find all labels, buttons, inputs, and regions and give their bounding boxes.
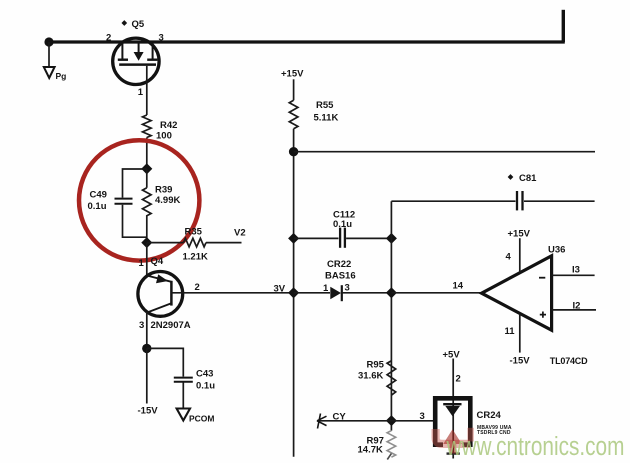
resistor R97 faded [387, 431, 396, 460]
svg-text:2N2907A: 2N2907A [151, 320, 191, 331]
svg-text:V2: V2 [234, 228, 246, 239]
wire: node to op-amp [391, 292, 481, 294]
green watermark text [446, 432, 625, 461]
label -15V op-amp [510, 356, 531, 367]
label V2 [234, 228, 246, 239]
red highlight circle [79, 140, 199, 260]
wire: C112 to mid node [346, 237, 391, 239]
pin 3 and part number label Q4 [139, 320, 191, 331]
node: dot at C43 tap [142, 344, 151, 353]
capacitor C81 plates [517, 191, 523, 210]
svg-text:C81: C81 [519, 173, 537, 184]
label C81 with dot [508, 173, 537, 184]
svg-text:3: 3 [345, 283, 350, 294]
svg-text:2: 2 [106, 33, 111, 44]
svg-text:3V: 3V [274, 284, 286, 295]
svg-text:4.99K: 4.99K [155, 195, 180, 206]
wire: C81 right [524, 200, 595, 202]
wire: to -15V [146, 348, 148, 403]
svg-text:R35: R35 [185, 227, 203, 238]
svg-text:31.6K: 31.6K [358, 371, 383, 382]
op-amp U36 triangle [482, 256, 552, 330]
wire: Q4 collector down [146, 312, 148, 349]
svg-text:1: 1 [323, 283, 329, 294]
svg-text:2: 2 [456, 374, 461, 385]
label +5V [443, 350, 461, 361]
wire: Q5 pin1 down to R42 [146, 66, 148, 115]
pin 14 label [453, 281, 464, 292]
wire: CR22 to mid node [342, 292, 391, 294]
svg-text:R42: R42 [160, 120, 177, 131]
pink watermark arrow [443, 429, 462, 453]
pin 3 label Q5 [159, 33, 164, 44]
node: diamond at x391 y238 [386, 233, 397, 244]
tiny subtext under CR24 [477, 425, 512, 436]
transistor Q5 circle [113, 38, 159, 84]
svg-text:www.cntronics.com: www.cntronics.com [446, 432, 625, 461]
svg-text:11: 11 [505, 326, 516, 337]
label I2 [573, 301, 581, 312]
svg-text:+15V: +15V [508, 229, 531, 240]
pin labels 1 3 of CR22 [323, 283, 350, 295]
wire: R35 to V2 stub [206, 242, 242, 244]
wire: +15V to R55 [293, 79, 295, 100]
transistor Q5 internals [118, 44, 158, 65]
wire: R55 down the main mid rail [293, 129, 295, 457]
label CR22 BAS16 [325, 259, 356, 282]
wire: CY row [319, 420, 433, 422]
wire: node into Q4 emitter [146, 243, 148, 277]
pin 3 label CR24 [420, 411, 425, 422]
label -15V [138, 406, 159, 417]
pin 2 label Q5 [106, 33, 111, 44]
pink watermark U shape [436, 428, 471, 444]
label C49 0.1u [88, 190, 107, 213]
svg-text:100: 100 [156, 131, 172, 142]
label CY [333, 412, 347, 423]
pin 2 label Q4 [195, 282, 200, 293]
ground PCOM symbol [177, 409, 190, 421]
svg-text:4: 4 [506, 252, 512, 263]
transistor Q4 circle [138, 272, 183, 317]
wire: C81 row left [391, 200, 515, 202]
svg-text:I2: I2 [573, 301, 581, 312]
label R42 100 [156, 120, 177, 142]
label +15V rail [281, 69, 304, 80]
transistor Q4 internals [147, 274, 172, 312]
svg-text:C43: C43 [196, 369, 213, 380]
pin 11 label [505, 326, 516, 337]
CR24 package box [435, 398, 470, 444]
capacitor C49 plates [115, 199, 133, 204]
pin 1 label Q5 [138, 87, 144, 98]
svg-text:CR24: CR24 [477, 410, 502, 421]
node: diamond junction top of R39 [141, 163, 152, 174]
diode CR22 [330, 285, 342, 301]
capacitor C43 plates [174, 378, 193, 382]
label I3 [572, 265, 580, 276]
svg-text:0.1u: 0.1u [333, 219, 352, 230]
label CR24 [477, 410, 502, 421]
bottom terminal bar of CR24 [447, 452, 460, 454]
capacitor C49 branch wires [123, 169, 147, 237]
op-amp plus sign [540, 312, 546, 318]
wire: thick top bus [48, 40, 565, 43]
wire: 3V to CR22 [294, 292, 330, 294]
pin 4 label [506, 252, 512, 263]
svg-text:5.11K: 5.11K [314, 113, 339, 124]
op-amp minus sign [539, 277, 545, 279]
wire: long horizontal at y152 [294, 151, 595, 153]
svg-text:2: 2 [195, 282, 200, 293]
wire: to C112 [294, 237, 339, 239]
svg-text:Pg: Pg [56, 71, 67, 81]
label R95 31.6K [358, 360, 385, 382]
svg-text:U36: U36 [548, 245, 565, 256]
resistor R55 [289, 100, 298, 129]
svg-text:I3: I3 [572, 265, 580, 276]
node: dot below R55 [289, 147, 298, 156]
svg-text:3: 3 [159, 33, 164, 44]
svg-text:0.1u: 0.1u [88, 201, 107, 212]
node: diamond 3V junction [288, 287, 299, 298]
label TL074CD [550, 356, 588, 366]
svg-text:14.7K: 14.7K [358, 445, 383, 456]
label R97 14.7K [358, 436, 384, 456]
label C112 0.1u [333, 210, 355, 231]
label Q4 and pin 1 [139, 256, 164, 269]
svg-text:+15V: +15V [281, 69, 304, 80]
svg-text:PCOM: PCOM [189, 414, 215, 424]
svg-text:CR22: CR22 [327, 259, 351, 270]
label Q5 with dot [121, 19, 144, 30]
svg-text:Q5: Q5 [132, 19, 145, 30]
op-amp pin 4 supply line [519, 238, 521, 273]
wire: R42 to node [146, 138, 148, 169]
svg-text:3: 3 [139, 320, 144, 331]
wire: thick top-right riser [562, 10, 565, 42]
svg-text:CY: CY [333, 412, 347, 423]
resistor R95 [387, 361, 396, 395]
svg-text:1: 1 [138, 87, 144, 98]
label R55 5.11K [314, 100, 339, 124]
svg-text:0.1u: 0.1u [196, 381, 215, 392]
svg-text:C49: C49 [90, 190, 107, 201]
capacitor C112 plates [340, 228, 345, 248]
resistor R35 [184, 238, 207, 247]
svg-text:14: 14 [453, 281, 464, 292]
wire: node to R35 [147, 242, 184, 244]
resistor R42 [143, 115, 152, 138]
label R39 4.99K [155, 185, 180, 207]
svg-text:-15V: -15V [510, 356, 531, 367]
label U36 [548, 245, 565, 256]
node: diamond at C112 row left [288, 233, 299, 244]
svg-text:R95: R95 [367, 360, 385, 371]
label +15V op-amp [508, 229, 531, 240]
diode CR24 [443, 404, 461, 416]
capacitor C43 branch [147, 348, 184, 408]
svg-text:R39: R39 [155, 185, 172, 196]
resistor R39 [143, 169, 152, 243]
svg-text:R55: R55 [316, 100, 334, 111]
CY arrow head [317, 414, 327, 429]
svg-text:-15V: -15V [138, 406, 159, 417]
wire: Pg drop [48, 42, 50, 67]
wire: I2 output [552, 309, 596, 311]
label R35 1.21K [183, 227, 208, 263]
wire: Q4 base to 3V node [171, 292, 293, 294]
node: junction dot at Pg tap [44, 37, 53, 46]
node: diamond at x391 y292 [386, 287, 397, 298]
label 3V [274, 284, 286, 295]
svg-text:BAS16: BAS16 [325, 271, 356, 282]
ground Pg label [56, 71, 67, 81]
wire: x391 vertical rail [390, 201, 392, 430]
svg-text:TL074CD: TL074CD [550, 356, 588, 366]
ground PCOM label [189, 414, 215, 424]
wire: +5V into CR24 [452, 359, 454, 459]
svg-text:1: 1 [139, 258, 145, 269]
ground Pg symbol [44, 67, 55, 78]
wire: I3 output [552, 274, 595, 276]
svg-text:Q4: Q4 [151, 256, 164, 267]
pin 2 label CR24 [456, 374, 461, 385]
svg-text:3: 3 [420, 411, 425, 422]
svg-text:1.21K: 1.21K [183, 252, 208, 263]
op-amp pin 11 supply line [519, 314, 521, 353]
node: diamond junction bottom of R39 [141, 237, 152, 248]
svg-text:+5V: +5V [443, 350, 461, 361]
node: diamond at CY row [386, 415, 397, 426]
label C43 0.1u [196, 369, 215, 392]
